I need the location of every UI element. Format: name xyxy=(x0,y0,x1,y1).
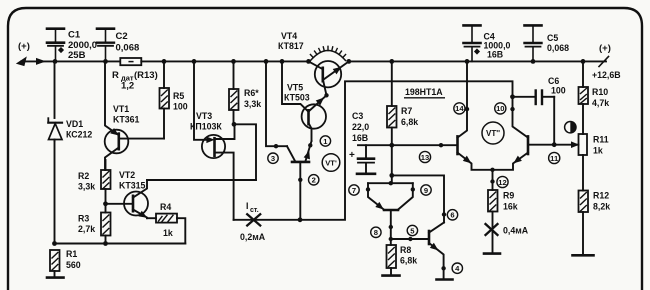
text: R1 value xyxy=(66,249,81,270)
text: VT3 xyxy=(190,111,222,132)
svg-text:VT'': VT'' xyxy=(486,129,500,138)
capacitor C1 xyxy=(47,29,64,62)
capacitor C5 xyxy=(525,25,542,61)
node: junction dots on bottom rail xyxy=(52,241,108,246)
resistor R13 (R dat) body xyxy=(120,58,141,65)
svg-text:100: 100 xyxy=(551,86,566,96)
svg-text:1k: 1k xyxy=(163,228,173,238)
pin circle 8 xyxy=(371,227,381,237)
text: Rdat R13 value xyxy=(112,70,158,92)
text: R7 value xyxy=(401,106,418,127)
pin circle 2 xyxy=(309,175,319,185)
ground under R1 xyxy=(47,276,64,279)
node: R7 bottom on net13 xyxy=(389,143,394,148)
svg-text:R7: R7 xyxy=(401,106,412,116)
node: R6 bottom / VT3 drain junction xyxy=(232,122,237,127)
resistor R1 xyxy=(50,250,60,277)
svg-text:(+): (+) xyxy=(18,41,30,52)
svg-text:2: 2 xyxy=(312,176,316,185)
svg-text:R9: R9 xyxy=(503,191,514,201)
svg-text:R10: R10 xyxy=(592,87,608,97)
node: 7-9 transistor top center junction xyxy=(389,181,393,185)
text: VT2 xyxy=(119,170,146,191)
potentiometer R11 xyxy=(571,134,587,191)
svg-text:VT2: VT2 xyxy=(119,170,135,180)
svg-text:560: 560 xyxy=(66,260,81,270)
pin circle 6 xyxy=(447,210,457,220)
pin circle 12 xyxy=(497,176,508,187)
text: VD1 xyxy=(66,119,92,140)
svg-text:R5: R5 xyxy=(173,91,184,101)
node: pin 14 dot xyxy=(465,107,469,111)
text: R2 value xyxy=(78,171,95,192)
ground under R9 xyxy=(484,252,500,255)
text: C6 value xyxy=(548,76,566,96)
svg-text:+12,6В: +12,6В xyxy=(592,70,621,80)
svg-text:VT4: VT4 xyxy=(281,31,297,41)
svg-text:R1: R1 xyxy=(66,249,77,259)
text: Ist label xyxy=(246,201,259,214)
resistor R7 xyxy=(387,61,397,183)
svg-text:11: 11 xyxy=(550,154,559,163)
transistor VT1 KT361 xyxy=(105,61,164,170)
node: pin 1 dot xyxy=(308,143,312,147)
pin circle 13 xyxy=(419,151,430,162)
svg-text:16В: 16В xyxy=(352,133,368,143)
svg-text:КТ817: КТ817 xyxy=(278,41,304,51)
resistor R3 xyxy=(101,213,111,244)
svg-text:13: 13 xyxy=(421,153,429,162)
label circle VT' xyxy=(322,154,340,172)
svg-text:25В: 25В xyxy=(68,50,86,61)
node: pin2 line meets X line xyxy=(298,217,303,222)
svg-text:10: 10 xyxy=(496,104,504,113)
ground under pins 4-5-6 emitter xyxy=(437,278,453,281)
svg-text:6: 6 xyxy=(450,211,454,220)
svg-text:12: 12 xyxy=(498,178,506,187)
svg-text:16В: 16В xyxy=(487,50,503,60)
svg-text:0,068: 0,068 xyxy=(116,43,140,54)
node: pin 10 dot xyxy=(510,107,514,111)
text: VT4 xyxy=(278,31,304,51)
wire: gamma wire from X line up and across to pin 10 column xyxy=(300,81,513,220)
text: R9 value xyxy=(503,191,518,212)
svg-text:C6: C6 xyxy=(548,76,559,86)
capacitor C4 xyxy=(464,25,481,61)
svg-text:8,2k: 8,2k xyxy=(593,202,610,212)
resistor R12 xyxy=(579,191,589,256)
node: pin 12 dot xyxy=(490,179,494,183)
X mark 0.4mA xyxy=(486,224,498,235)
pin circle 10 xyxy=(495,103,506,114)
svg-text:I: I xyxy=(246,201,248,211)
wire: top rail from input to Rdat(R13) xyxy=(55,60,120,62)
text: C3 value xyxy=(352,111,369,143)
node: emitter tail junction xyxy=(490,168,494,172)
node: C6 branch dot xyxy=(510,94,515,99)
svg-text:9: 9 xyxy=(424,186,428,195)
svg-text:R4: R4 xyxy=(160,202,171,212)
svg-text:VT3: VT3 xyxy=(196,111,212,121)
svg-text:C5: C5 xyxy=(547,33,558,43)
svg-text:14: 14 xyxy=(455,104,464,113)
ground under R8 xyxy=(383,274,400,277)
svg-text:VD1: VD1 xyxy=(66,119,83,129)
node: VT4 base / VT5 emitter junction xyxy=(324,93,328,97)
text: R11 value xyxy=(593,135,609,156)
text: R8 value xyxy=(400,245,417,266)
text: R12 value xyxy=(593,191,610,212)
transistor VT2 KT315 xyxy=(106,180,149,218)
svg-text:0,4мА: 0,4мА xyxy=(503,226,529,236)
svg-text:6,8k: 6,8k xyxy=(401,117,418,127)
wire: VT2 collector to center column xyxy=(147,179,256,181)
text: C2 value xyxy=(116,31,140,54)
svg-text:C3: C3 xyxy=(352,111,363,121)
svg-text:KT315: KT315 xyxy=(119,181,146,191)
svg-text:8: 8 xyxy=(374,228,378,237)
text: 198NT1A underlined xyxy=(404,87,445,98)
resistor R6 xyxy=(229,61,239,124)
svg-text:КТ503: КТ503 xyxy=(284,93,310,103)
wire: rail branch to IC pin 3 xyxy=(266,61,287,146)
svg-text:3,3k: 3,3k xyxy=(78,182,95,192)
svg-text:R12: R12 xyxy=(593,191,609,201)
svg-text:ст.: ст. xyxy=(250,207,259,214)
zener diode VD1 xyxy=(48,118,62,141)
svg-text:4,7k: 4,7k xyxy=(592,98,609,108)
pin circle 9 xyxy=(421,185,431,195)
node: pin 9 dot xyxy=(411,187,415,191)
svg-text:C2: C2 xyxy=(116,31,128,42)
pin circle 4 xyxy=(452,263,462,273)
wire: pin8 node to pins 4-5-6 transistor base xyxy=(391,238,429,240)
wire: bottom rail (left) xyxy=(55,243,186,245)
svg-text:3: 3 xyxy=(271,154,275,163)
resistor R5 xyxy=(160,61,170,138)
pin circle 1 xyxy=(320,136,330,146)
pin circle 5 xyxy=(407,225,417,235)
node: junction dots on top rail xyxy=(53,59,586,64)
svg-text:R11: R11 xyxy=(593,135,609,145)
svg-text:6,8k: 6,8k xyxy=(400,256,417,266)
svg-text:R6*: R6* xyxy=(244,88,259,98)
svg-text:198НТ1А: 198НТ1А xyxy=(405,87,443,97)
svg-text:КС212: КС212 xyxy=(66,130,92,140)
node: branch to pin6 riser xyxy=(389,173,394,178)
X mark Ist xyxy=(247,214,260,225)
text: C4 value xyxy=(484,32,511,60)
transistor IC (pins 7-8-9) xyxy=(368,183,413,245)
ground under R12 xyxy=(573,254,594,257)
svg-text:C1: C1 xyxy=(68,30,81,41)
wire: input (+) lead-in at left xyxy=(17,58,55,66)
node: R2/R3/VT2 base junction xyxy=(103,201,108,206)
wire: left column VD1 branch (rail to bottom rail) xyxy=(54,61,56,118)
text: VT5 xyxy=(284,83,310,103)
node: pin 4 dot xyxy=(441,266,445,270)
text: R10 value xyxy=(592,87,609,108)
wire: X test line (Ist 0.2mA) xyxy=(234,219,300,221)
text: C5 value xyxy=(547,33,569,53)
wire: top rail from R13 to VT4 collector dot xyxy=(141,60,308,62)
resistor R8 xyxy=(387,245,397,275)
svg-text:VT5: VT5 xyxy=(287,83,303,93)
node: pin 7 dot xyxy=(366,187,370,191)
transistor VT4 KT817 xyxy=(309,61,349,95)
node: pin 2 dot xyxy=(298,178,302,182)
text: R3 value xyxy=(78,214,95,235)
wire: rail branch to VT5 base xyxy=(282,61,309,111)
node: pin 13 dot xyxy=(439,143,443,147)
text: R5 value xyxy=(173,91,188,112)
capacitor C3 xyxy=(357,145,375,174)
svg-text:0,068: 0,068 xyxy=(547,43,569,53)
wire: R6 junction to VT2 collector column xyxy=(234,124,256,180)
transistor IC VT'' differential pair (pins 10-12-13-14) xyxy=(458,61,579,190)
svg-text:3,3k: 3,3k xyxy=(244,99,261,109)
transistor IC VT' (pins 1-2-3) xyxy=(287,141,312,220)
node: C6 to wiper wire dot xyxy=(552,142,557,147)
wire: branch to pin 6 riser xyxy=(392,175,444,222)
svg-text:22,0: 22,0 xyxy=(352,122,369,132)
pin circle 7 xyxy=(349,185,359,195)
svg-text:2,7k: 2,7k xyxy=(78,224,95,234)
text: R4 value xyxy=(160,202,173,238)
resistor R10 xyxy=(579,61,589,134)
svg-text:+: + xyxy=(349,150,355,161)
transistor IC (pins 4-5-6) xyxy=(429,223,444,280)
svg-text:7: 7 xyxy=(352,186,356,195)
pin circle 14 xyxy=(454,103,465,114)
svg-text:1,2: 1,2 xyxy=(121,81,134,92)
svg-text:KT361: KT361 xyxy=(113,115,140,125)
label circle VT'' xyxy=(482,122,504,144)
node: pin 5 dot xyxy=(408,237,412,241)
svg-text:VT1: VT1 xyxy=(113,104,129,114)
svg-text:(+): (+) xyxy=(599,43,611,54)
resistor R2 xyxy=(101,160,111,213)
svg-text:КП103К: КП103К xyxy=(190,122,222,132)
resistor R4 xyxy=(147,214,185,244)
node: pin 6 dot xyxy=(442,212,446,216)
svg-text:R: R xyxy=(112,70,119,81)
svg-text:(R13): (R13) xyxy=(134,70,158,81)
node: pin 3 dot xyxy=(274,144,278,148)
trimmer adjust icon xyxy=(565,122,576,133)
svg-text:R2: R2 xyxy=(78,171,89,181)
node: pin 8 dots xyxy=(389,225,393,241)
wire: top rail from VT4 emitter dot to output xyxy=(349,60,606,62)
text: VT1 xyxy=(113,104,140,125)
svg-text:1k: 1k xyxy=(593,146,603,156)
resistor R9 xyxy=(488,190,498,253)
output terminal slash xyxy=(599,57,609,67)
svg-text:R8: R8 xyxy=(400,245,411,255)
svg-text:0,2мА: 0,2мА xyxy=(240,232,266,242)
wire: net 13 horizontal (C3/R7 to VT'' left base) xyxy=(358,144,457,146)
capacitor C2 xyxy=(97,29,114,62)
transistor VT5 KT503 xyxy=(302,95,327,141)
heatsink arc over VT4 xyxy=(310,46,345,60)
pin circle 11 xyxy=(549,152,560,163)
text: C1 value xyxy=(68,30,97,62)
svg-text:100: 100 xyxy=(173,102,188,112)
capacitor C6 xyxy=(513,91,555,145)
pin circle 3 xyxy=(268,153,278,163)
svg-text:16k: 16k xyxy=(503,202,518,212)
text: R6 value xyxy=(244,88,261,109)
svg-text:R3: R3 xyxy=(78,214,89,224)
transistor VT3 KP103K xyxy=(194,61,235,219)
svg-text:VT': VT' xyxy=(325,158,337,167)
